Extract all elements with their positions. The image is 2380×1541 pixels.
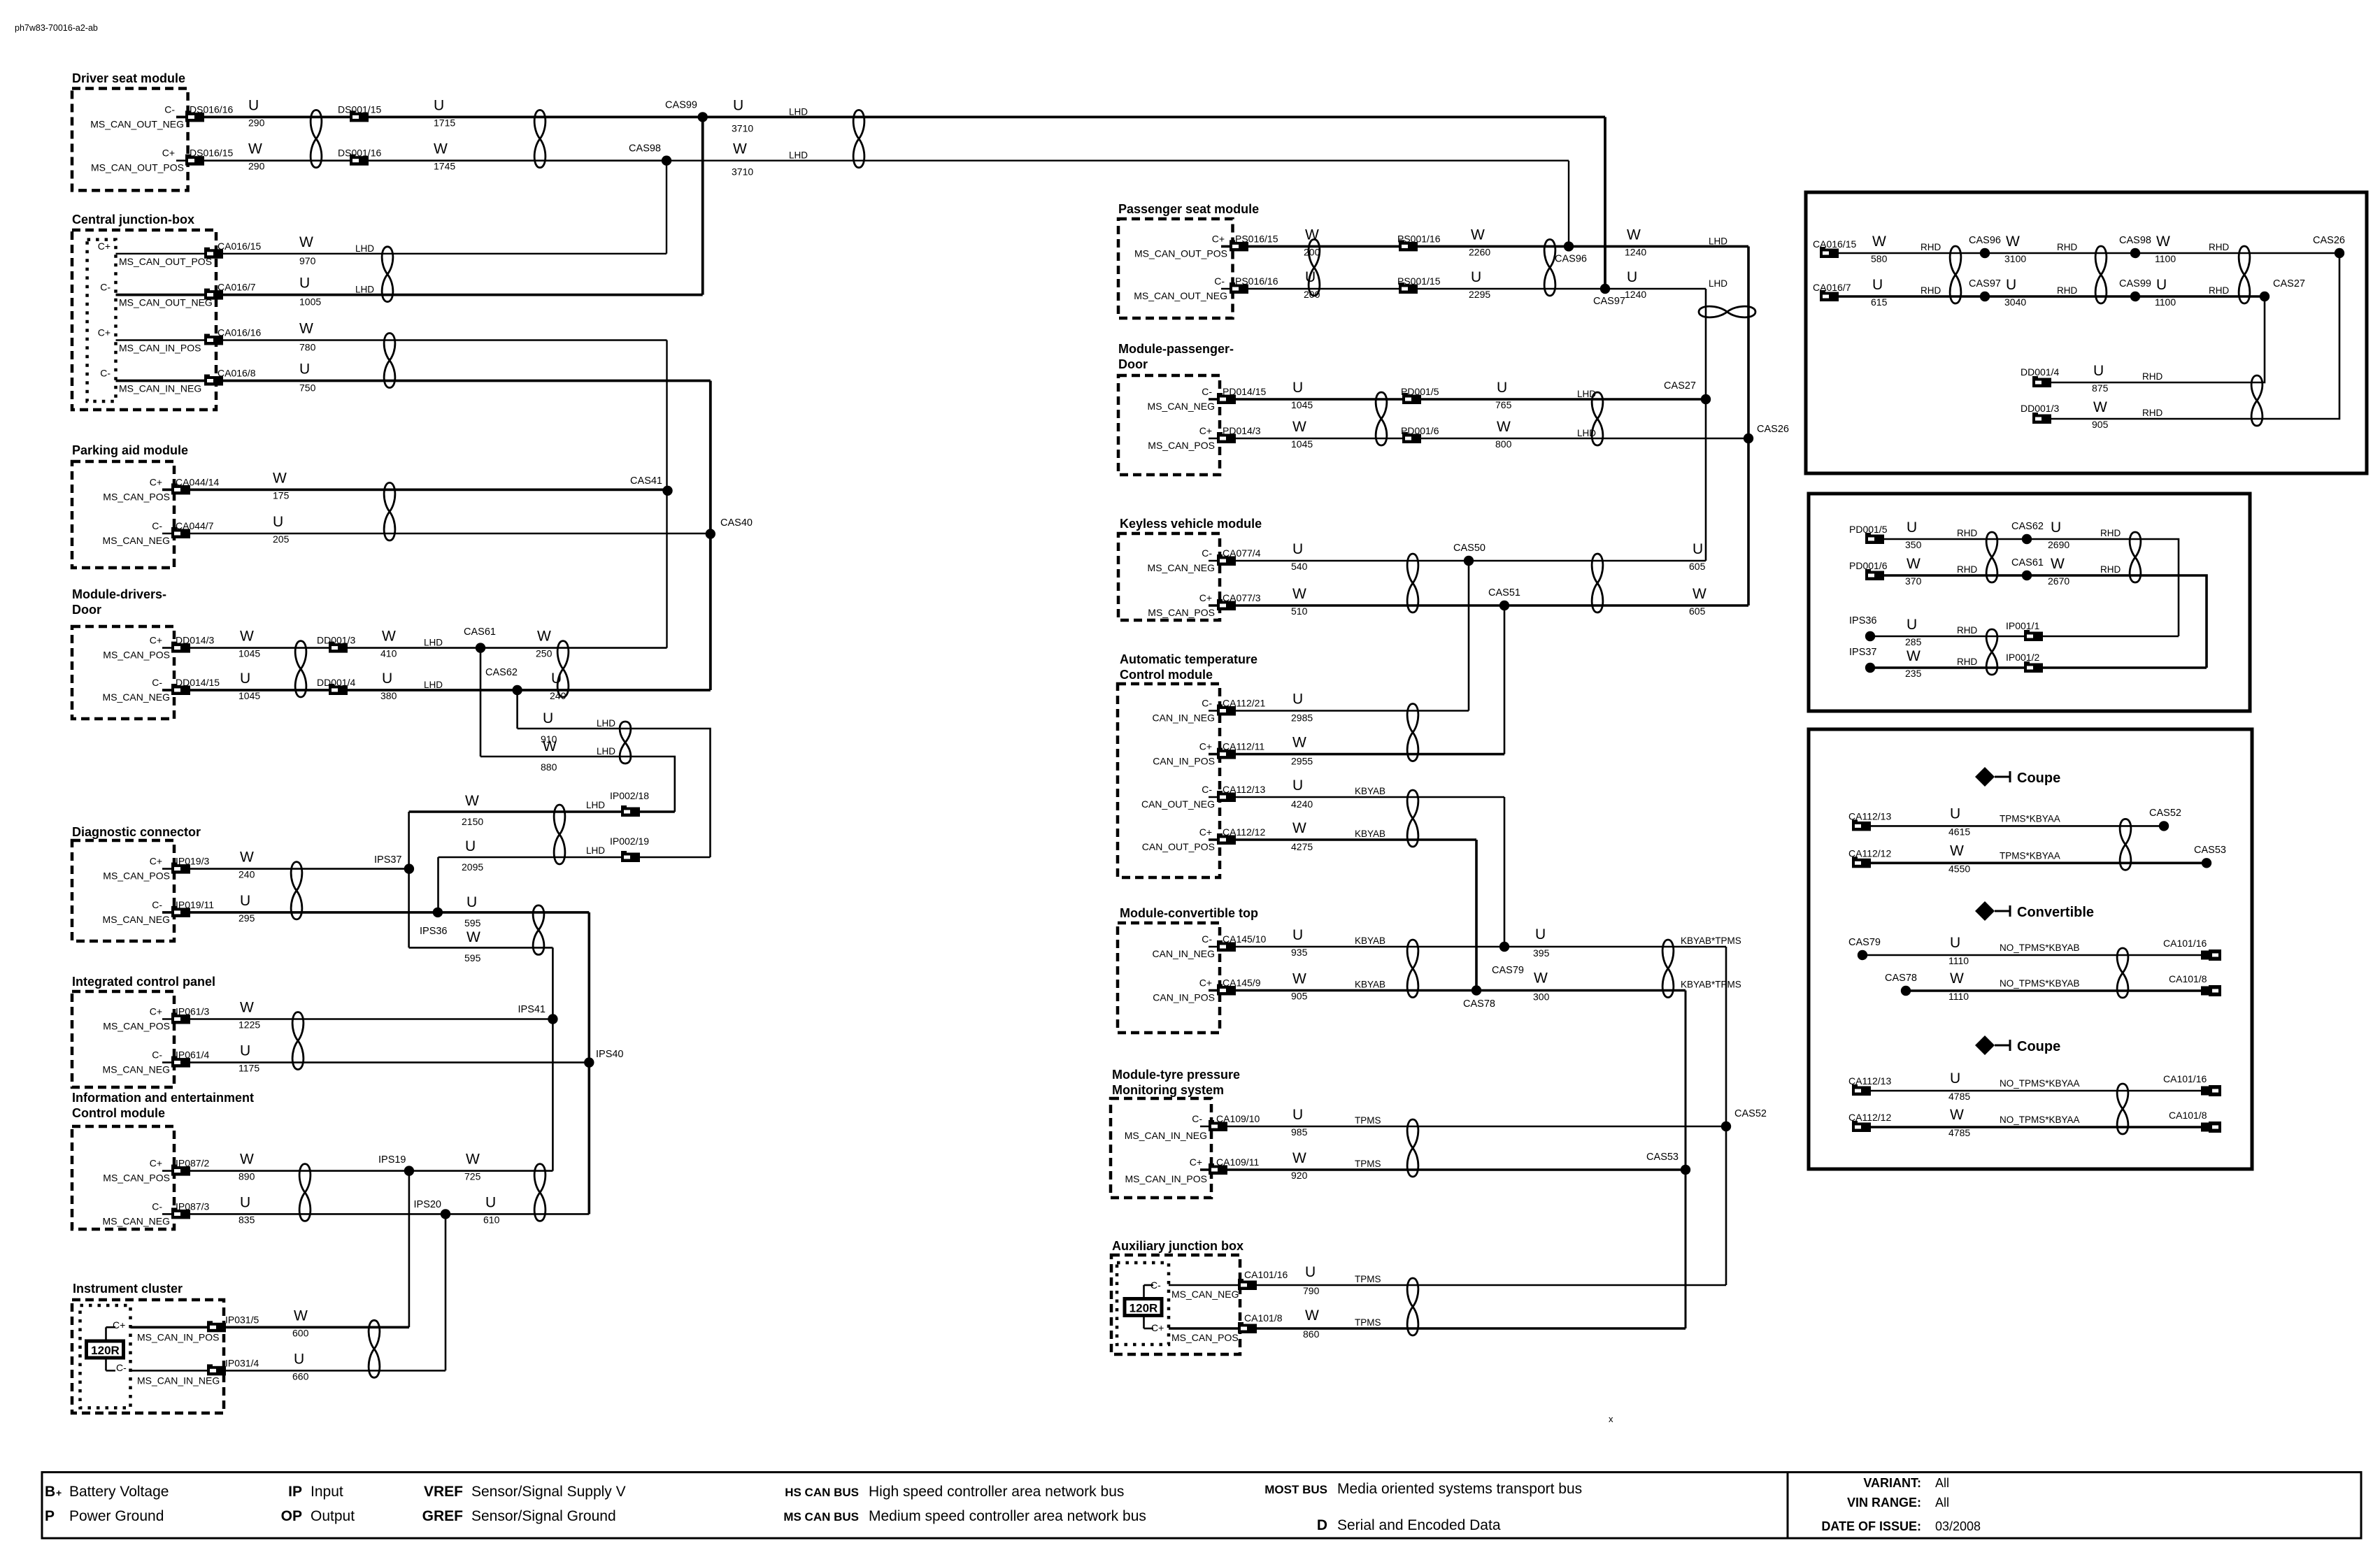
node CAS99 — [698, 112, 708, 122]
node CAS78 (Convertible) and wire W 1110 NO_TPMS*KBYAB to CA101/8 — [1906, 989, 2201, 992]
svg-text:1175: 1175 — [238, 1063, 259, 1074]
svg-text:MS_CAN_OUT_NEG: MS_CAN_OUT_NEG — [90, 118, 184, 129]
twisted pair symbol — [2117, 1084, 2128, 1134]
wire IP087/3 U 835 / U 610 (MS_CAN_NEG) — [162, 1213, 589, 1215]
svg-text:LHD: LHD — [424, 638, 443, 648]
wire CA077/4 U 540 / U 605 (MS_CAN_NEG) — [1209, 560, 1706, 562]
svg-text:DS016/15: DS016/15 — [190, 148, 233, 159]
svg-text:935: 935 — [1291, 947, 1308, 958]
svg-text:IPS20: IPS20 — [414, 1199, 442, 1210]
svg-text:MS_CAN_OUT_NEG: MS_CAN_OUT_NEG — [1134, 290, 1227, 301]
svg-text:U: U — [240, 1043, 250, 1059]
wire CA112/12 W 4550 TPMS*KBYAA to CAS53 — [1852, 862, 2207, 865]
svg-text:4275: 4275 — [1291, 841, 1313, 852]
svg-text:U: U — [1292, 1107, 1303, 1123]
twisted pair symbol — [557, 641, 569, 697]
svg-text:MS_CAN_POS: MS_CAN_POS — [1148, 440, 1215, 451]
svg-text:U: U — [1471, 269, 1481, 285]
svg-text:W: W — [2051, 556, 2065, 572]
svg-text:Information and entertainment: Information and entertainment — [72, 1091, 254, 1105]
svg-text:W: W — [2156, 234, 2170, 250]
svg-text:W: W — [299, 234, 313, 250]
svg-text:IP031/4: IP031/4 — [225, 1357, 259, 1368]
svg-text:CAN_OUT_NEG: CAN_OUT_NEG — [1141, 798, 1215, 810]
svg-text:CAS99: CAS99 — [665, 99, 697, 110]
svg-text:U: U — [1497, 380, 1507, 396]
wire vertical CA112/13 down to CAS79 — [1504, 797, 1506, 947]
svg-text:03/2008: 03/2008 — [1935, 1519, 1981, 1533]
svg-text:MS_CAN_POS: MS_CAN_POS — [103, 1021, 170, 1032]
svg-text:CA016/7: CA016/7 — [1813, 282, 1851, 293]
wire PS016/16 U 200 / PS001/15 U 2295 / U 1240 LHD (MS_CAN_OUT_NEG) — [1221, 288, 1706, 290]
svg-text:TPMS: TPMS — [1355, 1115, 1381, 1126]
svg-text:MS_CAN_IN_POS: MS_CAN_IN_POS — [137, 1331, 219, 1342]
svg-text:C-: C- — [116, 1362, 127, 1373]
node IPS40 — [584, 1057, 594, 1067]
svg-text:U: U — [240, 893, 250, 909]
node CAS99 (RHD) — [2130, 292, 2140, 301]
svg-text:C+: C+ — [113, 1319, 125, 1331]
node CAS61 — [476, 643, 485, 652]
svg-text:Control module: Control module — [1120, 668, 1213, 682]
svg-text:U: U — [299, 361, 310, 378]
svg-text:RHD: RHD — [2142, 408, 2162, 418]
wire PD014/15 U 1045 / PD001/5 U 765 LHD (MS_CAN_NEG) — [1209, 398, 1706, 400]
svg-text:TPMS: TPMS — [1355, 1274, 1381, 1284]
svg-text:C-: C- — [1150, 1280, 1161, 1291]
svg-text:380: 380 — [380, 690, 397, 701]
svg-text:CA109/10: CA109/10 — [1216, 1113, 1260, 1124]
twisted pair symbol — [292, 1012, 304, 1070]
svg-text:IP002/18: IP002/18 — [610, 790, 649, 801]
svg-text:LHD: LHD — [789, 150, 808, 161]
svg-text:CAN_IN_POS: CAN_IN_POS — [1153, 992, 1215, 1003]
svg-text:W: W — [465, 793, 479, 809]
svg-text:875: 875 — [2092, 382, 2109, 394]
svg-text:C+: C+ — [150, 1006, 162, 1017]
svg-text:CAS79: CAS79 — [1492, 965, 1524, 976]
wire CA112/11 W 2955 (CAN_IN_POS) — [1209, 753, 1504, 756]
svg-text:3040: 3040 — [2004, 296, 2026, 308]
wire W 2150 LHD to IP002/18 — [409, 810, 675, 813]
node CAS27 (RHD) — [2260, 292, 2269, 301]
svg-text:W: W — [543, 738, 557, 754]
svg-text:410: 410 — [380, 648, 397, 659]
svg-text:CAS98: CAS98 — [2119, 235, 2151, 246]
svg-text:RHD: RHD — [1957, 625, 1977, 636]
svg-text:U: U — [2051, 519, 2061, 536]
svg-text:U: U — [2006, 277, 2016, 293]
svg-text:CAS79: CAS79 — [1848, 937, 1881, 948]
wire CA016/16 W 780 (MS_CAN_IN_POS) — [116, 339, 667, 341]
svg-text:DD001/4: DD001/4 — [2021, 366, 2059, 378]
svg-text:Integrated control panel: Integrated control panel — [72, 975, 215, 989]
twisted pair symbol — [291, 862, 302, 919]
svg-text:MS_CAN_IN_POS: MS_CAN_IN_POS — [1125, 1173, 1207, 1184]
svg-text:4785: 4785 — [1948, 1091, 1970, 1102]
wire IP031/5 W 600 (MS_CAN_IN_POS) — [131, 1326, 409, 1329]
svg-text:CAS62: CAS62 — [2011, 521, 2044, 532]
variant box Coupe/Convertible — [1809, 729, 2252, 1169]
svg-text:TPMS: TPMS — [1355, 1317, 1381, 1328]
svg-text:NO_TPMS*KBYAA: NO_TPMS*KBYAA — [2000, 1114, 2080, 1125]
node CAS53 (Coupe) — [2202, 858, 2211, 868]
svg-text:350: 350 — [1905, 539, 1922, 550]
svg-text:C-: C- — [152, 1200, 162, 1212]
svg-text:CAS61: CAS61 — [2011, 557, 2044, 568]
wire IP087/2 W 890 / W 725 (MS_CAN_POS) — [162, 1170, 553, 1172]
svg-text:Passenger seat module: Passenger seat module — [1118, 202, 1259, 216]
wire DD001/4 U 875 RHD to CAS27 — [2032, 296, 2265, 382]
twisted pair symbol — [853, 110, 864, 167]
svg-text:U: U — [1950, 1070, 1960, 1087]
svg-text:LHD: LHD — [1709, 278, 1727, 289]
svg-text:Output: Output — [311, 1508, 355, 1524]
svg-text:U: U — [1535, 926, 1546, 942]
svg-text:W: W — [294, 1307, 308, 1324]
svg-text:DS001/16: DS001/16 — [338, 148, 381, 159]
svg-text:4550: 4550 — [1948, 863, 1970, 874]
svg-text:MS_CAN_IN_NEG: MS_CAN_IN_NEG — [119, 383, 201, 394]
node CAS62 (RHD) — [2022, 534, 2032, 544]
svg-text:KBYAB: KBYAB — [1355, 936, 1385, 946]
terminating resistor 120R bracket — [1143, 1285, 1145, 1298]
resistor 120R — [1125, 1299, 1162, 1316]
svg-text:W: W — [733, 141, 747, 157]
wire CA112/13 U 4785 NO_TPMS*KBYAA to CA101/16 — [1852, 1090, 2201, 1092]
svg-text:1045: 1045 — [238, 690, 260, 701]
svg-text:CAS62: CAS62 — [485, 667, 518, 678]
twisted pair symbol — [1986, 532, 1997, 582]
wire CA101/16 U 790 TPMS (MS_CAN_NEG) — [1169, 1284, 1726, 1286]
svg-text:W: W — [1497, 419, 1511, 435]
wire vertical W 595 corner down through IPS41 to W 725 — [552, 947, 554, 1170]
svg-text:1110: 1110 — [1948, 955, 1969, 966]
twisted pair symbol — [534, 110, 546, 167]
terminating resistor 120R bracket — [105, 1327, 107, 1341]
svg-text:W: W — [1872, 234, 1886, 250]
svg-text:LHD: LHD — [586, 800, 605, 810]
svg-text:CAS61: CAS61 — [464, 626, 496, 638]
svg-text:U: U — [248, 97, 259, 113]
svg-text:W: W — [1292, 586, 1306, 602]
svg-text:MS_CAN_NEG: MS_CAN_NEG — [1148, 562, 1215, 573]
svg-text:DD014/3: DD014/3 — [176, 635, 214, 646]
svg-text:510: 510 — [1291, 605, 1308, 617]
svg-text:TPMS: TPMS — [1355, 1159, 1381, 1169]
wire CA044/7 U 205 (MS_CAN_NEG) — [162, 533, 711, 535]
svg-text:HS CAN BUS: HS CAN BUS — [785, 1486, 859, 1499]
svg-text:880: 880 — [541, 761, 557, 773]
svg-text:C-: C- — [152, 899, 162, 910]
svg-text:W: W — [248, 141, 262, 157]
svg-text:DATE OF ISSUE:: DATE OF ISSUE: — [1821, 1519, 1921, 1533]
svg-text:Convertible: Convertible — [2017, 905, 2094, 920]
svg-text:CA016/16: CA016/16 — [218, 327, 261, 338]
wire PS016/15 W 200 / PS001/16 W 2260 / W 1240 LHD (MS_CAN_OUT_POS) — [1221, 245, 1748, 248]
wire CA101/8 W 860 TPMS (MS_CAN_POS) — [1169, 1327, 1686, 1330]
svg-text:C+: C+ — [1190, 1156, 1202, 1168]
svg-text:W: W — [299, 321, 313, 337]
svg-text:CAS50: CAS50 — [1453, 543, 1485, 554]
svg-text:PD014/15: PD014/15 — [1223, 386, 1266, 397]
svg-text:CA101/16: CA101/16 — [1244, 1269, 1288, 1280]
svg-text:LHD: LHD — [586, 845, 605, 856]
svg-text:CAN_IN_POS: CAN_IN_POS — [1153, 756, 1215, 767]
svg-text:Coupe: Coupe — [2017, 770, 2060, 786]
svg-text:290: 290 — [248, 161, 265, 172]
svg-text:PS001/15: PS001/15 — [1397, 275, 1441, 287]
svg-text:U: U — [299, 275, 310, 292]
twisted pair symbol — [1309, 239, 1320, 296]
svg-text:CA112/13: CA112/13 — [1223, 784, 1265, 795]
svg-text:CA016/15: CA016/15 — [218, 241, 261, 252]
svg-text:200: 200 — [1304, 246, 1320, 257]
svg-text:KBYAB*TPMS: KBYAB*TPMS — [1681, 980, 1741, 990]
svg-text:W: W — [1907, 648, 1921, 664]
svg-text:U: U — [434, 97, 444, 113]
twisted pair symbol — [369, 1320, 380, 1377]
svg-text:KBYAB: KBYAB — [1355, 980, 1385, 990]
svg-text:CA101/8: CA101/8 — [1244, 1312, 1283, 1324]
svg-text:IP087/2: IP087/2 — [176, 1158, 209, 1169]
svg-text:CAS52: CAS52 — [1734, 1108, 1767, 1119]
svg-text:Auxiliary junction box: Auxiliary junction box — [1112, 1239, 1244, 1253]
svg-text:CA112/11: CA112/11 — [1223, 741, 1264, 752]
svg-text:MS_CAN_NEG: MS_CAN_NEG — [103, 1064, 170, 1075]
svg-text:W: W — [1292, 419, 1306, 435]
svg-text:Door: Door — [1118, 357, 1148, 371]
svg-text:OP: OP — [281, 1508, 302, 1524]
svg-text:W: W — [1292, 735, 1306, 751]
svg-text:C-: C- — [152, 677, 162, 688]
twisted pair symbol — [1407, 790, 1418, 847]
svg-text:x: x — [1609, 1414, 1613, 1424]
svg-text:Module-passenger-: Module-passenger- — [1118, 342, 1234, 356]
crossover twist on verticals — [1699, 306, 1755, 317]
node CAS79 (Convertible) and wire U 1110 NO_TPMS*KBYAB to CA101/16 — [1862, 954, 2201, 956]
wire vertical CAS61 down to W 880 — [480, 648, 482, 757]
svg-text:235: 235 — [1905, 668, 1922, 679]
svg-text:C+: C+ — [162, 148, 175, 159]
svg-text:MOST BUS: MOST BUS — [1264, 1483, 1327, 1496]
svg-text:W: W — [240, 1000, 254, 1016]
svg-text:C+: C+ — [150, 476, 162, 487]
svg-text:C-: C- — [100, 282, 111, 293]
svg-text:595: 595 — [464, 952, 481, 963]
svg-text:CAN_IN_NEG: CAN_IN_NEG — [1153, 712, 1215, 724]
svg-text:W: W — [2006, 234, 2020, 250]
svg-text:U: U — [543, 710, 553, 726]
svg-text:W: W — [1292, 820, 1306, 836]
svg-text:D: D — [1317, 1517, 1327, 1533]
svg-text:PS016/15: PS016/15 — [1235, 233, 1278, 244]
svg-text:U: U — [465, 838, 476, 854]
svg-text:1110: 1110 — [1948, 991, 1969, 1002]
svg-text:240: 240 — [238, 869, 255, 880]
variant marker Convertible — [1975, 901, 2010, 921]
twisted pair symbol — [1407, 1278, 1418, 1335]
variant marker Coupe 2 — [1975, 1035, 2010, 1055]
svg-text:RHD: RHD — [1957, 528, 1977, 538]
svg-text:1225: 1225 — [238, 1019, 260, 1031]
svg-text:605: 605 — [1689, 605, 1706, 617]
wire CA112/12 W 4275 (CAN_OUT_POS) — [1209, 838, 1476, 841]
svg-text:2690: 2690 — [2048, 539, 2069, 550]
svg-text:MS_CAN_OUT_POS: MS_CAN_OUT_POS — [1134, 248, 1227, 259]
twisted pair symbol — [1592, 392, 1603, 445]
twisted pair symbol — [1407, 940, 1418, 998]
svg-text:All: All — [1935, 1476, 1949, 1490]
twisted pair symbol — [1544, 239, 1555, 296]
svg-text:120R: 120R — [1130, 1302, 1158, 1315]
node CAS52 — [1721, 1121, 1731, 1131]
svg-text:285: 285 — [1905, 636, 1922, 647]
svg-text:MS_CAN_POS: MS_CAN_POS — [1171, 1332, 1239, 1343]
svg-text:CAS99: CAS99 — [2119, 278, 2151, 289]
svg-text:RHD: RHD — [1957, 564, 1977, 575]
svg-text:CA145/10: CA145/10 — [1223, 933, 1266, 945]
svg-text:W: W — [240, 850, 254, 866]
svg-text:W: W — [382, 629, 396, 645]
svg-text:1045: 1045 — [238, 648, 260, 659]
svg-text:U: U — [1292, 691, 1303, 708]
wire vertical W 3710 down to CAS96 — [1568, 161, 1569, 247]
svg-text:2260: 2260 — [1469, 246, 1490, 257]
legend divider — [1787, 1472, 1789, 1538]
svg-text:CAS78: CAS78 — [1463, 998, 1495, 1010]
svg-text:PD001/6: PD001/6 — [1401, 425, 1439, 436]
svg-text:Automatic temperature: Automatic temperature — [1120, 652, 1257, 666]
wire vertical IPS20 down to IP031/4 — [445, 1214, 447, 1370]
svg-text:2670: 2670 — [2048, 575, 2069, 587]
svg-text:W: W — [2093, 399, 2107, 415]
svg-text:370: 370 — [1905, 575, 1922, 587]
svg-text:RHD: RHD — [1921, 242, 1941, 252]
svg-text:CAS96: CAS96 — [1969, 235, 2001, 246]
svg-text:W: W — [1907, 556, 1921, 572]
wire vertical W 1240 down through CAS26 to keyless W — [1747, 246, 1750, 605]
svg-text:CA077/4: CA077/4 — [1223, 547, 1261, 559]
svg-text:IPS36: IPS36 — [420, 926, 448, 937]
svg-text:IP061/4: IP061/4 — [176, 1049, 209, 1061]
svg-text:LHD: LHD — [597, 718, 615, 729]
svg-text:CAS26: CAS26 — [1757, 424, 1789, 435]
svg-text:Module-drivers-: Module-drivers- — [72, 587, 166, 601]
svg-text:VARIANT:: VARIANT: — [1863, 1476, 1921, 1490]
twisted pair symbol — [2120, 819, 2131, 870]
twisted pair symbol — [1376, 392, 1387, 445]
twisted pair symbol — [554, 805, 565, 864]
svg-text:CA016/8: CA016/8 — [218, 368, 256, 379]
svg-text:LHD: LHD — [597, 746, 615, 757]
svg-text:C-: C- — [152, 1049, 162, 1061]
svg-text:Central junction-box: Central junction-box — [72, 213, 194, 227]
svg-text:C+: C+ — [150, 1158, 162, 1169]
svg-text:IP001/2: IP001/2 — [2006, 652, 2039, 663]
node CAS26 — [1744, 433, 1753, 443]
svg-text:1240: 1240 — [1625, 289, 1646, 300]
svg-text:970: 970 — [299, 255, 316, 266]
svg-text:1100: 1100 — [2155, 253, 2176, 264]
wire CA016/7 U 615 RHD / U 3040 / U 1100 to CAS27 — [1820, 295, 2265, 298]
svg-text:CA145/9: CA145/9 — [1223, 977, 1261, 989]
wire IP019/11 U 295 (MS_CAN_NEG) — [162, 911, 589, 914]
svg-text:CA101/16: CA101/16 — [2163, 938, 2207, 949]
svg-text:U: U — [1305, 1264, 1316, 1280]
svg-text:Power Ground: Power Ground — [69, 1508, 164, 1524]
wire vertical U 595 corner down through IPS40 to U 610 — [587, 912, 590, 1214]
svg-text:U: U — [240, 1194, 250, 1210]
twisted pair symbol — [295, 641, 306, 697]
svg-text:395: 395 — [1533, 947, 1550, 959]
svg-text:Coupe: Coupe — [2017, 1039, 2060, 1054]
svg-text:C+: C+ — [1199, 977, 1212, 989]
svg-text:MS_CAN_NEG: MS_CAN_NEG — [103, 691, 170, 703]
svg-text:1715: 1715 — [434, 117, 455, 128]
svg-text:U: U — [485, 1194, 496, 1210]
svg-text:615: 615 — [1871, 296, 1888, 308]
twisted pair symbol — [2117, 948, 2128, 998]
svg-text:2985: 2985 — [1291, 712, 1313, 724]
svg-text:MS_CAN_NEG: MS_CAN_NEG — [103, 1215, 170, 1226]
svg-text:W: W — [1693, 586, 1706, 602]
svg-text:1045: 1045 — [1291, 399, 1313, 410]
svg-text:3710: 3710 — [732, 122, 753, 134]
svg-text:Module-tyre pressure: Module-tyre pressure — [1112, 1068, 1240, 1082]
svg-text:3100: 3100 — [2004, 253, 2026, 264]
svg-text:C-: C- — [164, 103, 175, 115]
svg-text:W: W — [1627, 227, 1641, 243]
node IPS36 — [433, 908, 443, 917]
wire DD014/15 U 1045 / DD001/4 U 380 LHD / U 240 (MS_CAN_NEG) — [162, 689, 711, 691]
svg-text:C+: C+ — [98, 241, 111, 252]
wire CA016/15 W 970 (MS_CAN_OUT_POS) — [116, 253, 667, 255]
svg-text:CA112/21: CA112/21 — [1223, 698, 1265, 709]
node CAS27 — [1701, 394, 1711, 404]
wire CA112/13 U 4615 TPMS*KBYAA to CAS52 — [1852, 825, 2164, 827]
svg-text:CAS51: CAS51 — [1488, 587, 1520, 599]
svg-text:LHD: LHD — [424, 680, 443, 690]
twisted pair symbol — [1662, 940, 1674, 998]
svg-text:605: 605 — [1689, 561, 1706, 572]
svg-text:600: 600 — [292, 1327, 309, 1338]
svg-text:MS_CAN_OUT_POS: MS_CAN_OUT_POS — [91, 162, 184, 173]
svg-text:C-: C- — [1202, 784, 1212, 795]
node IPS36 (RHD) and wire U 285 RHD to IP001/1 — [1870, 636, 2179, 638]
svg-text:Parking aid module: Parking aid module — [72, 443, 188, 457]
twisted pair symbol — [384, 334, 395, 388]
svg-text:DS001/15: DS001/15 — [338, 103, 381, 115]
svg-text:Diagnostic connector: Diagnostic connector — [72, 825, 201, 839]
svg-text:MS CAN BUS: MS CAN BUS — [783, 1510, 859, 1524]
svg-text:595: 595 — [464, 917, 481, 929]
svg-text:RHD: RHD — [2057, 242, 2077, 252]
svg-text:Input: Input — [311, 1484, 343, 1500]
svg-text:NO_TPMS*KBYAA: NO_TPMS*KBYAA — [2000, 1078, 2080, 1089]
svg-text:1045: 1045 — [1291, 438, 1313, 450]
svg-text:VIN RANGE:: VIN RANGE: — [1847, 1496, 1921, 1510]
svg-text:905: 905 — [2092, 419, 2109, 430]
svg-text:LHD: LHD — [1709, 236, 1727, 246]
svg-text:295: 295 — [238, 912, 255, 924]
svg-text:Driver seat module: Driver seat module — [72, 71, 185, 85]
svg-text:U: U — [1292, 777, 1303, 794]
svg-text:IP002/19: IP002/19 — [610, 836, 649, 847]
svg-text:4240: 4240 — [1291, 798, 1313, 810]
node CAS51 — [1499, 601, 1509, 610]
svg-text:725: 725 — [464, 1171, 481, 1182]
